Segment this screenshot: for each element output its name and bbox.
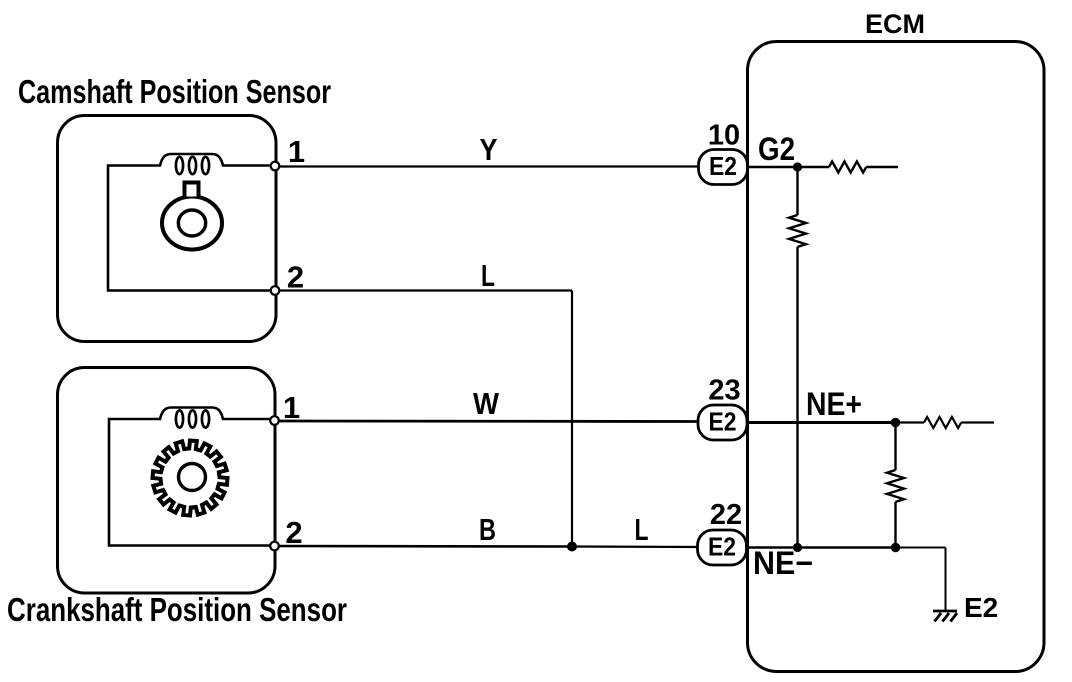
resistor R4 (NE+/NE- shunt, vertical): [887, 470, 904, 502]
crank pin 1 terminal: [270, 416, 279, 425]
wire after R3: [961, 421, 994, 423]
crankshaft toothed rotor (gear): [153, 441, 228, 516]
wire G2 inside ECM: [746, 166, 829, 168]
wire NE+ inside ECM: [746, 421, 896, 424]
wire: R2 down to NE- row: [796, 247, 798, 548]
svg-text:2: 2: [285, 515, 302, 550]
cam pin 2 terminal: [271, 286, 280, 295]
svg-text:ECM: ECM: [865, 9, 925, 39]
camshaft rotor shaft hole: [178, 210, 205, 236]
node B/L junction dot: [567, 542, 577, 552]
wire: R4 down to NE- row: [894, 502, 896, 548]
crank pin 2 terminal: [270, 542, 279, 551]
svg-text:NE−: NE−: [753, 545, 813, 581]
svg-text:W: W: [473, 386, 500, 421]
svg-text:G2: G2: [758, 131, 795, 167]
wire: NE+ junction down to R4: [894, 423, 896, 471]
crankshaft rotor shaft hole: [179, 464, 206, 491]
wire W : crank pin1 to ECM pin 23: [275, 420, 701, 423]
wire L : junction to ECM pin 22: [572, 545, 700, 548]
node G2 junction dot: [793, 162, 802, 171]
wire: drop to ground: [945, 548, 947, 612]
svg-text:L: L: [481, 258, 495, 293]
svg-text:23: 23: [708, 375, 740, 407]
wire Y : cam pin1 to ECM pin 10: [275, 165, 700, 167]
svg-text:Y: Y: [480, 132, 498, 167]
node NE- / R4 junction dot: [891, 543, 901, 553]
svg-text:Crankshaft Position Sensor: Crankshaft Position Sensor: [7, 591, 347, 628]
resistor R2 (G2 pull-down, vertical): [789, 215, 806, 247]
camshaft position sensor box: [58, 116, 277, 342]
cam pin 1 terminal: [271, 162, 280, 171]
node NE- / G2 pulldown junction dot: [793, 543, 802, 552]
wire NE- to ground drop: [896, 547, 946, 549]
node NE+ junction dot: [891, 418, 901, 428]
svg-text:22: 22: [710, 499, 742, 531]
camshaft rotor (signal plate): [162, 197, 222, 250]
svg-text:B: B: [479, 512, 496, 547]
crankshaft coil winding loop (wire): [109, 408, 275, 546]
svg-text:2: 2: [287, 260, 304, 295]
resistor R1 (G2 series, horizontal): [829, 162, 866, 173]
camshaft coil winding loop (wire): [108, 154, 275, 291]
wire: G2 junction down to R2: [796, 167, 798, 215]
wire: cam pin2 L segment: [275, 289, 572, 291]
crankshaft position sensor box: [58, 368, 276, 594]
crankshaft inductor L2 loops: [176, 410, 183, 427]
connector pin 23 oval E2: [698, 405, 747, 440]
svg-text:Camshaft Position Sensor: Camshaft Position Sensor: [18, 73, 331, 110]
wire: L vertical down: [571, 291, 573, 547]
svg-text:E2: E2: [709, 407, 737, 437]
wire B : crank pin2 to junction: [275, 545, 573, 548]
ECM box: [748, 42, 1045, 672]
svg-text:10: 10: [708, 120, 740, 152]
svg-text:E2: E2: [964, 592, 998, 623]
connector pin 10 oval E2: [699, 150, 748, 185]
wire after R1: [866, 166, 898, 168]
wire NE+ to R3: [896, 421, 925, 423]
camshaft rotor key notch: [185, 183, 199, 197]
svg-text:E2: E2: [708, 532, 736, 562]
svg-text:1: 1: [283, 390, 300, 425]
camshaft inductor L1 loops: [176, 157, 183, 174]
resistor R3 (NE+ series, horizontal): [924, 417, 961, 428]
ground symbol E2: [933, 611, 957, 622]
svg-text:NE+: NE+: [806, 386, 862, 422]
connector pin 22 oval E2: [698, 530, 747, 565]
svg-text:1: 1: [288, 134, 305, 169]
wire NE- inside ECM: [746, 546, 896, 549]
svg-text:L: L: [635, 512, 649, 547]
svg-text:E2: E2: [709, 151, 737, 181]
